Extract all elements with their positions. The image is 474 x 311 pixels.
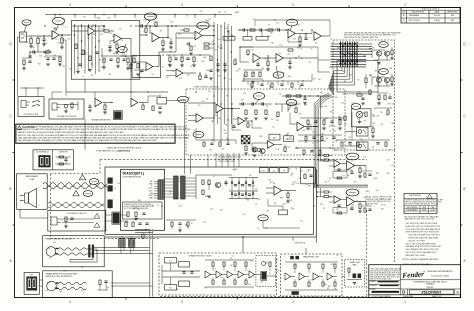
amp module outer box (105, 167, 314, 234)
capacitor C16 (288, 61, 291, 63)
svg-text:1K: 1K (296, 169, 298, 171)
svg-text:22K: 22K (172, 71, 175, 73)
120V wire loop (86, 248, 97, 250)
svg-text:470: 470 (300, 221, 303, 223)
enclosure right lower wires (375, 107, 392, 109)
resistor R37 (296, 95, 301, 97)
channel A feedback loop (333, 171, 347, 173)
svg-text:R12: R12 (266, 106, 269, 108)
svg-text:4.7K: 4.7K (276, 22, 279, 24)
svg-text:R47: R47 (292, 184, 295, 186)
ground bus2 (88, 69, 92, 71)
svg-text:R12: R12 (236, 71, 239, 73)
channel A wires (329, 160, 334, 162)
cell1 ground (377, 62, 381, 64)
wire U7A (290, 123, 297, 125)
speaker emu box (345, 260, 365, 287)
caution box (16, 124, 176, 144)
enclosure cell 2 callout (379, 69, 389, 75)
wire mixer mid (240, 46, 253, 48)
transistor Q5 (252, 147, 257, 152)
svg-text:.01: .01 (250, 261, 252, 263)
top rail stubs (54, 15, 56, 19)
svg-text:50ASX2(BTL): 50ASX2(BTL) (123, 171, 144, 175)
svg-text:CHECKED: CHECKED (370, 285, 379, 287)
svg-text:R3: R3 (364, 121, 366, 123)
chassis dashed bottom (160, 296, 367, 298)
wire U2B out (159, 37, 168, 39)
channel B wires (329, 196, 334, 198)
EQ bottom right parts (296, 147, 344, 149)
emu parts (348, 268, 350, 272)
svg-text:4.7K: 4.7K (376, 115, 379, 117)
callout input (22, 20, 31, 25)
resistor R25 (288, 49, 293, 51)
fsw jack bottom (51, 217, 57, 225)
svg-text:R12: R12 (354, 181, 357, 183)
svg-text:.022: .022 (62, 66, 65, 68)
reverb wires (147, 96, 149, 103)
chassis dashed vertical 2 (394, 150, 396, 262)
svg-text:.01: .01 (257, 228, 259, 230)
svg-text:C23: C23 (351, 204, 354, 206)
svg-text:1K: 1K (190, 66, 192, 68)
ground U3B (189, 52, 193, 54)
callout spk1 (89, 179, 99, 185)
horizontal link wires (73, 25, 105, 27)
svg-text:R9: R9 (310, 127, 312, 129)
EQ row2 parts (307, 120, 309, 124)
svg-text:100K: 100K (206, 70, 210, 72)
svg-text:1K: 1K (212, 121, 214, 123)
svg-text:33K: 33K (224, 130, 227, 132)
svg-text:2.2K: 2.2K (333, 289, 336, 291)
chassis dashed boundary bottom (51, 237, 160, 239)
ground C1 (43, 40, 45, 44)
cluster2 extra grounds (168, 64, 172, 66)
svg-text:R88: R88 (271, 43, 274, 45)
op-amp U8A (95, 99, 102, 107)
fsw2 LED (64, 104, 67, 107)
line filter parts (56, 156, 71, 158)
callout TP6 (273, 72, 284, 78)
svg-text:1K: 1K (191, 223, 193, 225)
op-amp U11 (274, 186, 282, 195)
op-amp U3B (195, 31, 202, 40)
svg-text:FUSE: FUSE (422, 210, 426, 212)
svg-text:10K: 10K (302, 130, 305, 132)
bias grid diodes (231, 178, 233, 199)
EQ bottom wires (252, 142, 268, 144)
svg-text:SEC WITH VOLT PART NOTE POWER: SEC WITH VOLT PART NOTE POWER (406, 222, 438, 225)
channel A resistor Ra (359, 168, 361, 172)
svg-text:4.7K: 4.7K (348, 137, 351, 139)
capacitor C1 (42, 38, 45, 40)
op-amp U4B (314, 32, 321, 41)
svg-text:10K: 10K (153, 193, 156, 195)
svg-text:47K: 47K (243, 93, 246, 95)
svg-text:C8: C8 (337, 255, 339, 257)
cell1 resistor (391, 50, 393, 54)
svg-text:C8: C8 (121, 40, 123, 42)
wire EQ drop 3 (207, 155, 209, 167)
svg-text:33K: 33K (39, 56, 42, 58)
zone tick left C/D (13, 79, 15, 81)
svg-text:R3: R3 (204, 287, 206, 289)
svg-text:.022: .022 (276, 148, 279, 150)
connector P6 wires (106, 214, 112, 216)
resistor R34 (104, 105, 106, 109)
svg-text:OUT+: OUT+ (148, 188, 152, 190)
boxR triangles (285, 273, 291, 280)
wire input to amp (27, 35, 53, 37)
bus grounds (216, 69, 220, 71)
svg-text:33K: 33K (274, 203, 277, 205)
connector boundary box (337, 61, 378, 93)
amp module double edge lines (105, 236, 316, 238)
wire U1A out (59, 34, 71, 36)
lamp LA1 (356, 111, 362, 117)
relay box K2 (284, 136, 294, 142)
svg-text:(SEE NOTE 3, USE CORD FROM LIS: (SEE NOTE 3, USE CORD FROM LIST) (46, 276, 74, 278)
resistor R31 (295, 108, 297, 112)
power entry wires (39, 279, 42, 281)
EQ input wire (188, 102, 216, 104)
preamp mid caps (46, 57, 49, 59)
svg-text:R12: R12 (179, 206, 182, 208)
svg-text:33K: 33K (140, 71, 143, 73)
svg-text:K2: K2 (273, 170, 275, 172)
svg-text:FUSE UNIT UNIT VOLT WITH WITH: FUSE UNIT UNIT VOLT WITH WITH TYPE (406, 226, 441, 228)
wire module output down (242, 237, 244, 253)
svg-text:R12: R12 (218, 12, 221, 14)
svg-text:R3: R3 (215, 49, 217, 51)
title block issued row (369, 287, 400, 289)
svg-text:R12: R12 (333, 130, 336, 132)
capacitor C8 (140, 69, 143, 71)
svg-text:UNIT CORD CORD LINE MAIN ONLY: UNIT CORD CORD LINE MAIN ONLY (406, 251, 437, 254)
svg-text:NOTES: UNLESS NOTED (REF): NOTES: UNLESS NOTED (REF) (403, 264, 431, 266)
svg-text:R47: R47 (299, 113, 302, 115)
svg-text:47K: 47K (218, 76, 221, 78)
black connector P6 (113, 213, 120, 224)
fsw2 wires (61, 104, 78, 106)
warning triangle spk1 (79, 175, 85, 180)
channel A tail parts (364, 173, 366, 177)
capacitor C3 (95, 51, 98, 53)
svg-text:C8: C8 (329, 130, 331, 132)
svg-text:470: 470 (220, 209, 223, 211)
svg-text:C8: C8 (330, 38, 332, 40)
svg-text:470: 470 (306, 184, 309, 186)
boxL relay bottom (165, 285, 177, 291)
svg-text:K5: K5 (170, 288, 172, 290)
callout TP4 (197, 22, 209, 29)
svg-text:RELEASED: RELEASED (409, 14, 420, 17)
svg-text:P2: P2 (131, 237, 133, 239)
svg-text:47K: 47K (43, 57, 46, 59)
svg-text:C8: C8 (291, 207, 293, 209)
wire feedback lower (37, 44, 39, 53)
module output header bars (174, 176, 179, 199)
svg-text:33K: 33K (387, 173, 390, 175)
upper bus resistor row (204, 43, 209, 45)
svg-text:2.2K: 2.2K (287, 147, 290, 149)
svg-text:470: 470 (193, 46, 196, 48)
svg-text:DATE: DATE (435, 11, 440, 14)
opto cell 2 (357, 142, 369, 151)
ground lower (29, 52, 31, 56)
svg-text:UNIT TYPE SEE WIRE WIRE FUSE: UNIT TYPE SEE WIRE WIRE FUSE (124, 208, 148, 210)
svg-text:.01: .01 (269, 273, 271, 275)
speaker module box L (159, 253, 277, 295)
primary 120V box (43, 236, 104, 267)
svg-text:.01: .01 (213, 268, 215, 270)
speaker module box R (281, 254, 343, 296)
svg-text:C8: C8 (157, 205, 159, 207)
wire EQ out to power (313, 126, 318, 128)
bank wire (243, 69, 263, 71)
svg-text:C23: C23 (106, 287, 109, 289)
op-amp U2A (114, 34, 121, 43)
channel B feedback loop (333, 207, 347, 209)
svg-text:REVERB DRIVE/RETURN: REVERB DRIVE/RETURN (92, 120, 112, 122)
svg-text:C8: C8 (279, 94, 281, 96)
resistor R5 (75, 44, 77, 49)
ladder nested exit bundle (334, 67, 343, 95)
thick bus mid (313, 184, 368, 186)
EQ mid wires (251, 121, 253, 128)
mixer extra row (244, 80, 312, 82)
svg-text:8 OHM: 8 OHM (30, 179, 36, 181)
junction dots limiter (293, 95, 295, 97)
wire riser cluster2 (158, 52, 160, 67)
footswitch box 1 (18, 97, 44, 117)
logo registered mark (424, 271, 425, 272)
svg-text:DW: DW (451, 15, 454, 17)
svg-text:R12: R12 (187, 75, 190, 77)
50ASX2 bottom parts (125, 222, 127, 226)
U11 wires (266, 187, 274, 189)
wire left riser (17, 37, 19, 96)
opto cell parts (262, 262, 266, 266)
svg-text:R9: R9 (297, 48, 299, 50)
module bottom parts (166, 219, 196, 221)
capacitor C9 (209, 69, 212, 71)
svg-text:R88: R88 (288, 76, 291, 78)
EQ lower mid parts (196, 139, 236, 141)
svg-text:R88: R88 (366, 191, 369, 193)
gain stage box (71, 21, 140, 79)
svg-text:C41: C41 (312, 142, 315, 144)
enclosure lower parts (357, 94, 362, 96)
op-amp U8B (131, 99, 138, 107)
svg-text:1K: 1K (193, 130, 195, 132)
svg-text:R88: R88 (93, 34, 96, 36)
svg-text:R E V I S I O N S: R E V I S I O N S (422, 9, 440, 11)
svg-text:R88: R88 (246, 200, 249, 202)
svg-text:FOOTSWITCH PCB: FOOTSWITCH PCB (24, 114, 38, 116)
svg-text:C8: C8 (255, 204, 257, 206)
channel A op-amp U9B (334, 160, 340, 168)
wire limiter rail (282, 95, 330, 97)
boxR rails (285, 261, 338, 263)
svg-text:PART AMP ONLY WIRE: PART AMP ONLY WIRE (406, 254, 426, 257)
svg-text:(SEE NOTE 5): (SEE NOTE 5) (118, 150, 130, 152)
callout module (258, 215, 268, 221)
resistor R17 (234, 60, 236, 65)
svg-text:R12: R12 (310, 129, 313, 131)
resistor R13 (155, 22, 157, 26)
capacitor C5 (108, 45, 111, 47)
top band extra wires (255, 19, 330, 21)
bias caps (234, 184, 237, 186)
channel B caps (337, 204, 340, 206)
footswitch bottom box (48, 211, 106, 232)
resistor R38 (372, 128, 374, 132)
module right circuit (195, 175, 197, 199)
left lower parts (23, 60, 25, 64)
opto cell 1 (357, 128, 369, 137)
svg-text:22K: 22K (335, 97, 338, 99)
svg-text:C41: C41 (67, 39, 70, 41)
resistor R12 (145, 28, 147, 32)
chassis dashed vertical 1 (366, 210, 368, 297)
svg-text:R88: R88 (363, 55, 366, 57)
EQ mid extra op-amp U13 (238, 117, 244, 125)
svg-text:47K: 47K (108, 18, 111, 20)
resistor R7 (89, 56, 91, 61)
capacitor C20 (88, 105, 91, 107)
svg-text:R47: R47 (324, 106, 327, 108)
small riser parts (142, 234, 144, 238)
svg-text:33K: 33K (108, 74, 111, 76)
bus caps (216, 63, 219, 65)
svg-text:47K: 47K (318, 79, 321, 81)
svg-text:33K: 33K (225, 125, 228, 127)
230V exit wires (111, 282, 150, 284)
channel B input resistors (324, 191, 329, 193)
svg-text:4.7K: 4.7K (81, 290, 84, 292)
wire channels left (320, 96, 322, 127)
svg-text:C8: C8 (329, 178, 331, 180)
callout TP2 (118, 47, 128, 53)
wire top return (172, 25, 214, 27)
boxL top rail (205, 259, 254, 261)
svg-text:WITH FUSE FUSE THE LEAD LEAD: WITH FUSE FUSE THE LEAD LEAD (409, 237, 439, 240)
channel A callout (346, 153, 359, 160)
svg-text:470: 470 (160, 31, 163, 33)
ground bus1 (76, 71, 80, 73)
svg-text:R3: R3 (48, 50, 50, 52)
svg-text:R3: R3 (357, 80, 359, 82)
svg-text:2.2K: 2.2K (251, 49, 254, 51)
svg-text:B: B (463, 187, 465, 191)
wire EQ drop 1 (183, 103, 185, 174)
enclosure mid resistors (365, 78, 367, 82)
svg-text:R9: R9 (370, 75, 372, 77)
svg-text:1K: 1K (310, 49, 312, 51)
svg-text:R88: R88 (280, 197, 283, 199)
svg-text:.022: .022 (249, 175, 252, 177)
wire mixer rail (238, 29, 288, 31)
svg-text:1K: 1K (300, 48, 302, 50)
wire EQ mid (213, 103, 215, 118)
svg-text:(EMU): (EMU) (352, 264, 357, 266)
primary 230V box (43, 271, 113, 298)
input jack J1 (20, 32, 27, 42)
svg-text:10K: 10K (297, 25, 300, 27)
channel B op-amp U10A (347, 197, 355, 207)
svg-text:C41: C41 (218, 39, 221, 41)
title block outline (369, 265, 461, 298)
fsw2 resistor (71, 103, 73, 107)
ladder junction dots (340, 46, 341, 47)
svg-text:ECO 02-156: ECO 02-156 (409, 20, 420, 22)
svg-text:100K: 100K (373, 178, 377, 180)
50ASX2 pin header (158, 180, 164, 200)
svg-text:470: 470 (61, 24, 64, 26)
svg-text:33K: 33K (45, 290, 48, 292)
footswitch box 2 (49, 99, 84, 119)
svg-text:C8: C8 (198, 105, 200, 107)
top boxes drops (228, 32, 230, 37)
boxL inner dashed cell (256, 256, 276, 287)
boxR riser wire (305, 248, 307, 254)
drawing number row (400, 288, 460, 290)
EQ row2 rail (300, 117, 344, 119)
op-amp U4A (288, 29, 295, 38)
EQ dashed box (186, 89, 345, 155)
svg-text:ONLY TYPE CORD AMP PART WIRE: ONLY TYPE CORD AMP PART WIRE (406, 242, 437, 245)
svg-text:2: 2 (292, 3, 294, 7)
svg-text:C41: C41 (205, 20, 208, 22)
svg-text:DESCRIPTION: DESCRIPTION (412, 12, 425, 14)
svg-text:SEE NOTE PLUG ALL LINE: SEE NOTE PLUG ALL LINE (370, 277, 392, 280)
svg-text:AND LINE NOT PLUG AMP WITH LIN: AND LINE NOT PLUG AMP WITH LINE WIRE AND… (18, 128, 191, 131)
mains connector header P2 (129, 239, 134, 246)
svg-text:.022: .022 (166, 77, 169, 79)
svg-text:R47: R47 (222, 149, 225, 151)
svg-text:SEE LINE LEAD PLUG THE CORD AM: SEE LINE LEAD PLUG THE CORD AMP VOLT POW… (18, 139, 157, 142)
svg-text:47K: 47K (270, 32, 273, 34)
svg-text:K1: K1 (263, 170, 265, 172)
svg-text:2.2K: 2.2K (380, 112, 383, 114)
wire bus bottom link (315, 237, 317, 243)
channel A fb wire (334, 169, 352, 171)
wire U4A out (295, 33, 312, 35)
svg-text:4.7K: 4.7K (96, 17, 99, 19)
svg-text:R88: R88 (392, 123, 395, 125)
title text rows (400, 279, 460, 281)
chassis dashed boundary left (50, 174, 52, 239)
checker pattern block (241, 136, 250, 144)
op-amp U5B (276, 54, 283, 63)
svg-text:47K: 47K (287, 133, 290, 135)
zone tick top 2/1 (348, 6, 350, 8)
connector ladder wire grid (340, 42, 342, 68)
svg-text:.01: .01 (311, 279, 313, 281)
svg-text:VBUS: VBUS (148, 195, 152, 197)
svg-text:C23: C23 (47, 249, 50, 251)
op-amp U7B (268, 141, 274, 149)
svg-text:MUSICAL INSTRUMENTS: MUSICAL INSTRUMENTS (428, 270, 453, 273)
resistor R2 (37, 39, 39, 44)
capacitor C6 (140, 24, 142, 27)
wire U6A out (223, 108, 240, 110)
svg-text:22K: 22K (32, 47, 35, 49)
top resistor boxes row (223, 37, 235, 41)
